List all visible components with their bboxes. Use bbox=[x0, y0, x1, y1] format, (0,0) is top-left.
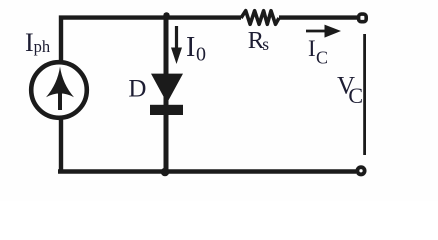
svg-text:D: D bbox=[128, 76, 146, 103]
svg-text:I: I bbox=[308, 36, 316, 61]
svg-text:I: I bbox=[186, 32, 195, 63]
svg-text:C: C bbox=[316, 48, 328, 68]
svg-text:C: C bbox=[348, 83, 363, 108]
svg-text:s: s bbox=[262, 34, 269, 54]
svg-text:ph: ph bbox=[34, 37, 51, 56]
svg-text:I: I bbox=[25, 28, 34, 57]
svg-text:0: 0 bbox=[196, 44, 206, 66]
